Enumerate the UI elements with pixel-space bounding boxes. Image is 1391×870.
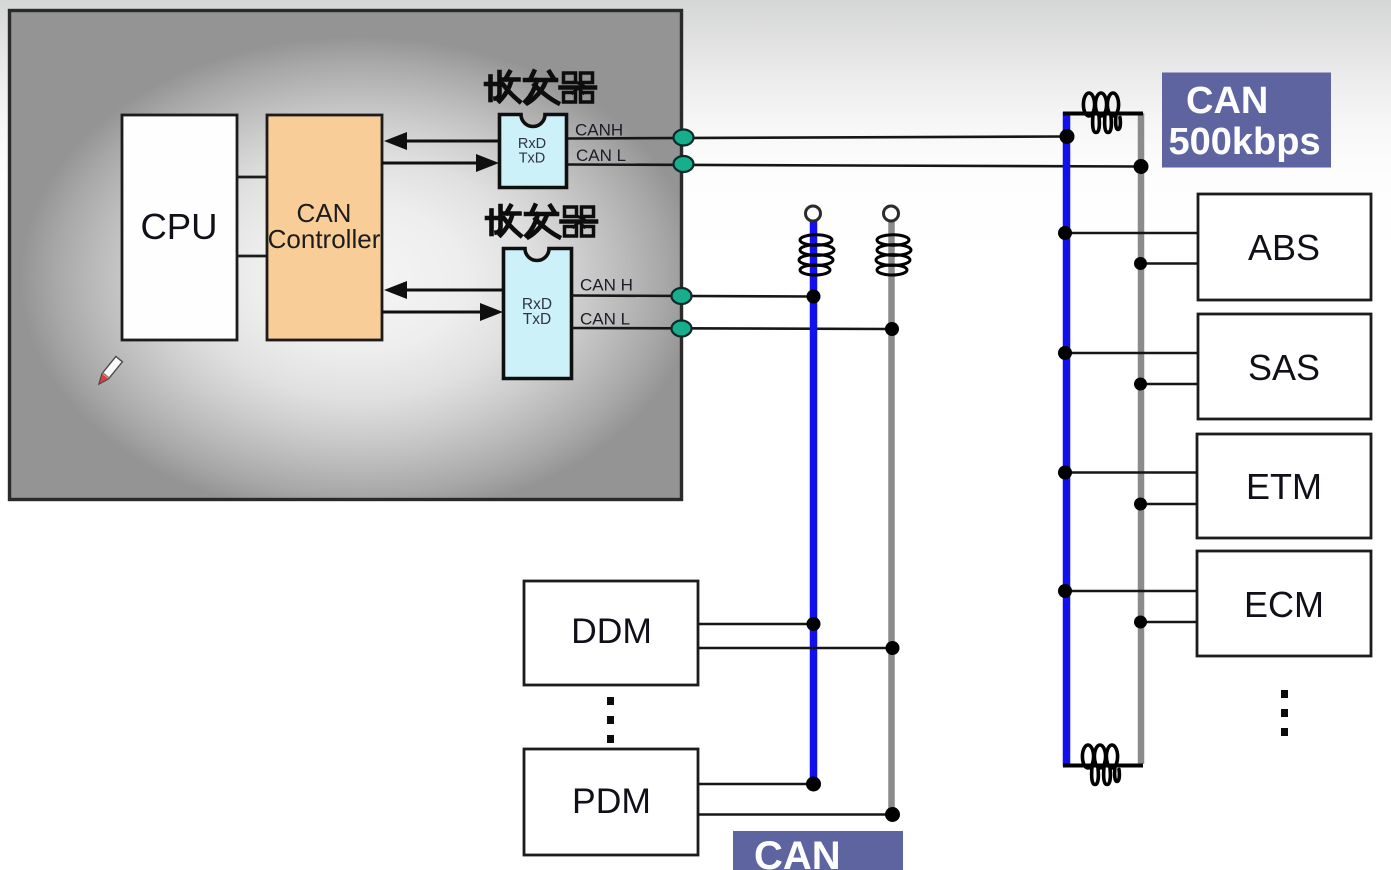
svg-text:ETM: ETM	[1246, 466, 1322, 507]
wire ETM blue	[1066, 471, 1197, 473]
mid gray bus open terminal	[884, 206, 899, 221]
svg-text:ABS: ABS	[1248, 227, 1320, 268]
svg-text:CANH: CANH	[575, 121, 623, 140]
junction CANL right bus	[1134, 159, 1149, 174]
right CAN-L gray bus	[1138, 113, 1145, 764]
CAN label box (bottom)	[733, 831, 903, 870]
termination coil on mid gray bus	[876, 235, 911, 275]
pencil cursor	[96, 356, 123, 386]
junction U2 CAN H on blue bus	[807, 290, 821, 304]
ECM box	[1197, 551, 1371, 656]
wire PDM to blue bus	[698, 783, 813, 785]
CANH net wire (U1 to blue bus)	[567, 137, 1066, 139]
svg-text:SAS: SAS	[1248, 347, 1320, 388]
svg-text:DDM: DDM	[571, 611, 652, 651]
junction DDM blue	[807, 617, 821, 631]
bottom termination wire	[1063, 764, 1143, 768]
wire ECM gray	[1141, 621, 1197, 623]
svg-text:CAN: CAN	[1186, 80, 1268, 122]
CAN H net wire (U2 to mid blue bus)	[572, 296, 814, 297]
wire RxD U1 with arrow to controller	[384, 132, 499, 150]
svg-text:500kbps: 500kbps	[1169, 121, 1321, 163]
wire ABS gray	[1141, 262, 1198, 264]
top termination coil R1	[1083, 93, 1120, 133]
junction ABS blue	[1058, 226, 1072, 240]
right CAN-H blue bus	[1063, 112, 1071, 766]
wire TxD U1 with arrow to transceiver	[382, 154, 499, 172]
transceiver U2	[504, 249, 572, 379]
svg-text:PDM: PDM	[572, 781, 651, 821]
收发器 label 1	[486, 72, 595, 104]
svg-text:CAN: CAN	[754, 834, 841, 870]
junction ETM gray	[1134, 498, 1147, 511]
junction PDM gray (bus end)	[885, 807, 900, 822]
node CAN H panel terminal	[672, 288, 692, 304]
mid blue bus open terminal	[806, 206, 821, 221]
CPU box	[122, 115, 237, 340]
ABS box	[1198, 194, 1371, 300]
svg-text:TxD: TxD	[519, 151, 546, 167]
ellipsis dots below ECM	[1281, 690, 1288, 736]
CANL net wire (U1 to gray bus)	[567, 165, 1140, 167]
svg-text:CPU: CPU	[140, 206, 217, 247]
wire DDM to gray bus	[698, 647, 893, 649]
svg-text:CAN L: CAN L	[576, 146, 626, 165]
wire SAS blue	[1066, 352, 1198, 354]
svg-text:TxD: TxD	[523, 311, 551, 328]
DDM box	[524, 581, 698, 685]
wire SAS gray	[1141, 383, 1198, 385]
wire CPU-controller lower	[237, 255, 267, 258]
svg-text:Controller: Controller	[268, 224, 381, 254]
ETM box	[1197, 434, 1371, 538]
node CANH panel terminal	[674, 130, 694, 146]
wire ECM blue	[1066, 590, 1197, 592]
junction ECM blue	[1058, 584, 1072, 598]
ellipsis dots between DDM and PDM	[607, 697, 614, 743]
junction SAS gray	[1134, 378, 1147, 391]
junction ETM blue	[1058, 466, 1072, 480]
svg-text:ECM: ECM	[1244, 584, 1324, 625]
node CANL panel terminal	[674, 156, 694, 172]
transceiver U1	[500, 115, 567, 188]
gray system panel	[10, 11, 682, 500]
junction SAS blue	[1058, 346, 1072, 360]
node CAN L panel terminal	[672, 321, 692, 337]
bottom termination coil R2	[1082, 745, 1119, 785]
junction PDM blue (bus end)	[806, 777, 821, 792]
SAS box	[1198, 314, 1371, 419]
wire RxD U2 with arrow to controller	[384, 281, 503, 299]
svg-text:CAN L: CAN L	[580, 310, 630, 329]
wire ETM gray	[1141, 503, 1197, 505]
top termination wire	[1063, 112, 1143, 116]
junction DDM gray	[886, 641, 900, 655]
收发器 label 2	[487, 206, 596, 238]
mid CAN-L gray bus	[888, 221, 895, 815]
wire PDM to gray bus	[698, 813, 893, 815]
wire CPU-controller upper	[237, 176, 267, 179]
PDM box	[524, 749, 698, 855]
CAN L net wire (U2 to mid gray bus)	[572, 328, 892, 329]
CAN controller box	[267, 115, 382, 340]
CAN 500kbps label box	[1162, 73, 1331, 168]
termination coil on mid blue bus	[799, 235, 834, 275]
mid CAN-H blue bus	[810, 221, 818, 784]
junction CANH right bus	[1060, 129, 1075, 144]
wire DDM to blue bus	[698, 623, 813, 625]
svg-text:CAN H: CAN H	[580, 276, 633, 295]
junction U2 CAN L on gray bus	[885, 322, 899, 336]
wire ABS blue	[1066, 232, 1198, 234]
junction ECM gray	[1134, 616, 1147, 629]
wire TxD U2 with arrow to transceiver	[382, 303, 503, 321]
junction ABS gray	[1134, 257, 1147, 270]
